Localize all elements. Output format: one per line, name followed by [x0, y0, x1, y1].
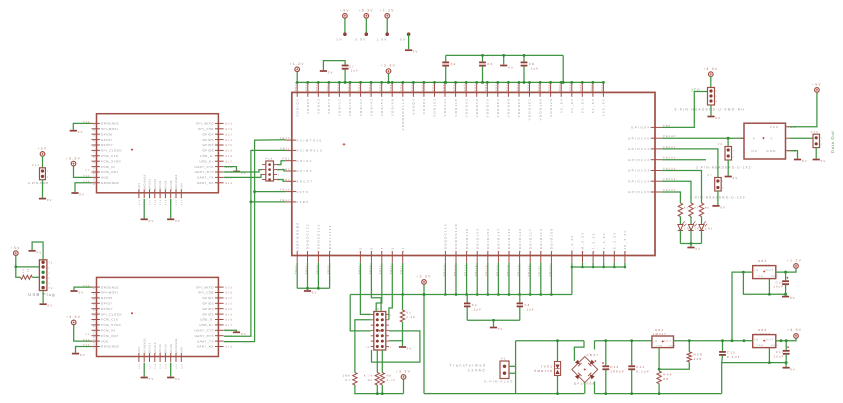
main IC top pin 27	[571, 83, 573, 97]
svg-text:GPIO3: GPIO3	[202, 307, 213, 311]
svg-text:GPIO1: GPIO1	[297, 159, 313, 163]
svg-text:VDDI56: VDDI56	[380, 98, 384, 116]
svg-text:S22: S22	[225, 133, 233, 136]
main IC top pin 7 name VDDI37	[359, 98, 363, 116]
wire U2 UART_RTS to P14	[224, 170, 262, 172]
svg-text:VDDIO153: VDDIO153	[475, 228, 479, 253]
text 2-PIN-PLUG	[484, 379, 513, 383]
ground 0V U2 UART_CTS	[233, 171, 240, 173]
module U2 bottom pin GROUND4	[175, 189, 177, 198]
svg-text:3M_3.3V: 3M_3.3V	[581, 231, 585, 252]
main IC top pin 19 name VDDD75	[486, 98, 490, 118]
svg-text:S4: S4	[92, 138, 95, 142]
junction top bus pin 27	[570, 81, 573, 84]
wire U3 GROUND1 to ground	[74, 287, 92, 290]
main IC top pin 21 name VDDD88	[507, 98, 511, 118]
svg-text:VDDD109: VDDD109	[538, 98, 542, 120]
main IC top pin 8	[370, 83, 372, 97]
main IC top pin 3	[317, 83, 319, 97]
svg-text:RESET: RESET	[101, 307, 113, 311]
svg-text:VDDIO152: VDDIO152	[486, 228, 490, 253]
svg-text:0V: 0V	[498, 327, 504, 331]
svg-text:+5V: +5V	[812, 83, 822, 87]
svg-text:.1uF: .1uF	[349, 69, 359, 73]
svg-text:GPIO134: GPIO134	[628, 179, 651, 183]
svg-text:USB_D+: USB_D+	[199, 323, 213, 327]
main IC left pin 12RX	[285, 201, 296, 203]
ground 0V U3 GROUND1	[70, 290, 77, 292]
wire GPIO84 to JTC header	[662, 92, 708, 128]
svg-text:0V: 0V	[78, 130, 84, 134]
svg-text:0V: 0V	[149, 219, 155, 223]
svg-text:VDDQ6: VDDQ6	[412, 98, 416, 115]
svg-text:+5V: +5V	[340, 9, 350, 13]
svg-text:S28: S28	[154, 199, 157, 205]
svg-text:TAB: TAB	[757, 275, 764, 278]
svg-text:S5: S5	[92, 144, 95, 148]
svg-text:VCC: VCC	[770, 125, 780, 129]
svg-text:CR37: CR37	[587, 353, 600, 357]
module U2 bottom pin AIO0	[180, 189, 182, 198]
svg-text:GPIO8: GPIO8	[170, 344, 173, 354]
wire P7 to ground	[717, 191, 719, 205]
svg-text:91: 91	[401, 247, 405, 253]
svg-text:+3.3V: +3.3V	[396, 370, 411, 374]
main IC right pin GPIO133	[651, 170, 662, 172]
wire LED CR1 cathode	[701, 231, 703, 244]
wire bridge bottom connection	[584, 383, 586, 394]
svg-text:Transformed: Transformed	[450, 364, 487, 368]
svg-text:0V: 0V	[821, 159, 827, 163]
wire R8 below JTAG	[381, 350, 383, 373]
net label top pin 6	[347, 82, 350, 91]
svg-text:IN: IN	[754, 338, 759, 341]
svg-text:0V: 0V	[720, 205, 726, 209]
module U2 bottom pin GPIO11	[149, 189, 151, 198]
svg-text:1: 1	[821, 137, 823, 140]
svg-text:GPIO140: GPIO140	[628, 136, 651, 140]
svg-text:GPIO141: GPIO141	[628, 147, 651, 151]
wire LED CR3 cathode	[679, 231, 681, 244]
ground 0V C2 C3	[493, 320, 495, 326]
capacitor C13	[605, 341, 607, 366]
svg-text:SPI_CSB: SPI_CSB	[198, 127, 214, 131]
svg-text:1: 1	[733, 149, 735, 152]
wire PB28 to JTAG col2	[371, 263, 381, 312]
text Data Out	[830, 131, 835, 153]
svg-text:0V: 0V	[80, 353, 86, 357]
svg-text:P14: P14	[265, 158, 273, 161]
svg-text:AIO0: AIO0	[180, 183, 183, 191]
main IC top pin 14 name VDD103	[433, 98, 437, 117]
svg-text:3.8V: 3.8V	[355, 37, 366, 41]
svg-text:GPIO3: GPIO3	[202, 143, 213, 147]
svg-text:GPIO10: GPIO10	[154, 178, 157, 190]
module U2 right pin UART_RTS	[215, 171, 224, 173]
op-amp IC2 buffer gate	[744, 123, 786, 159]
ground 0V flag top	[407, 32, 411, 36]
junction top bus pin 23	[528, 81, 531, 84]
ground 0V R1	[402, 341, 404, 347]
net label top pin 7	[358, 82, 361, 91]
main IC top pin 21	[507, 83, 509, 97]
wire PSU top rail right	[595, 340, 652, 342]
module U3 right pin UART_CTS	[215, 329, 224, 331]
main IC top pin 29	[592, 83, 594, 97]
module U3 bottom pin GPIO8	[170, 353, 172, 362]
module U3 left pin GROUND1	[92, 286, 100, 288]
net label top pin 5	[337, 82, 340, 91]
svg-text:C2: C2	[472, 303, 478, 307]
junction top bus pin 14	[433, 81, 436, 84]
main IC top pin 22 name VDDD95	[517, 98, 521, 118]
svg-text:GPIO2: GPIO2	[202, 149, 213, 153]
wire tap 12RX	[251, 201, 285, 203]
svg-text:+1.2V: +1.2V	[380, 9, 395, 13]
svg-text:D14: D14	[22, 269, 25, 276]
capacitor C15	[722, 341, 724, 351]
svg-text:0V: 0V	[695, 247, 701, 251]
svg-text:51_0V: 51_0V	[591, 98, 595, 113]
net label PB6	[663, 124, 671, 127]
svg-text:S18: S18	[225, 319, 233, 322]
regulator U01	[655, 328, 664, 332]
svg-text:VDD111: VDD111	[443, 98, 447, 117]
module U2 net labels left	[83, 121, 90, 124]
net label top pin 29	[590, 82, 593, 91]
svg-text:2: 2	[722, 187, 724, 190]
svg-text:VDDD82: VDDD82	[496, 98, 500, 118]
net label top pin 24	[538, 82, 541, 91]
main IC top pin 17 name VDDD62	[464, 98, 468, 118]
svg-text:0V: 0V	[790, 296, 796, 300]
net label top pin 12	[411, 82, 414, 91]
net label top pin 11	[400, 82, 403, 91]
svg-text:VDDPLL124: VDDPLL124	[328, 224, 332, 252]
ground 0V buffer	[794, 159, 801, 161]
svg-text:0.15: 0.15	[27, 268, 30, 276]
ground 0V U3 GROUND3	[141, 377, 148, 379]
svg-text:2: 2	[716, 95, 718, 98]
svg-text:5V: 5V	[337, 37, 343, 41]
net label top pin 3	[316, 82, 319, 91]
wire PB29 to JTAG col1	[376, 263, 382, 312]
svg-text:0V: 0V	[175, 219, 181, 223]
svg-text:14: 14	[388, 346, 392, 349]
svg-text:C13: C13	[610, 365, 619, 369]
capacitor C14	[631, 341, 633, 366]
svg-text:GROUND4: GROUND4	[175, 338, 178, 354]
svg-text:C6: C6	[487, 62, 493, 66]
wire +3.3V rail drop to bottom rail	[423, 295, 425, 394]
main IC top pin 22	[518, 83, 520, 97]
module U3 right pin UART_RX	[215, 346, 224, 348]
svg-text:S19: S19	[225, 313, 233, 316]
wire ground return rail	[722, 363, 786, 394]
svg-text:SPI_CSB: SPI_CSB	[198, 291, 214, 295]
module U2 right pin UART_RX	[215, 182, 224, 184]
svg-text:S9: S9	[92, 329, 95, 333]
ground 0V U2 GROUND3	[141, 218, 148, 220]
connector P15 2-PIN-PWR	[32, 164, 40, 167]
svg-text:VDDIO147: VDDIO147	[497, 228, 501, 253]
junction top bus pin 5	[338, 81, 341, 84]
module U3 left pin GPIO6	[92, 297, 100, 299]
module U3 bottom pin GPIO10	[154, 353, 156, 362]
svg-text:30: 30	[359, 247, 363, 253]
wire +5V to USB pin1	[16, 256, 40, 267]
svg-text:+1.2V: +1.2V	[290, 62, 305, 66]
svg-text:VDDOSCPLL2: VDDOSCPLL2	[401, 98, 405, 131]
net label PB1	[282, 158, 290, 161]
svg-text:+3.3V: +3.3V	[66, 156, 81, 160]
net label top pin 9	[379, 82, 382, 91]
svg-text:VDDI37: VDDI37	[359, 98, 363, 116]
svg-text:GPIO8: GPIO8	[170, 180, 173, 190]
module U2 left pin VDD	[92, 176, 100, 178]
net label PB3	[282, 178, 290, 181]
svg-text:Y: Y	[771, 136, 774, 140]
wire U3 GROUND2 to ground	[76, 347, 92, 353]
svg-text:0V: 0V	[37, 250, 43, 254]
svg-text:TAB: TAB	[757, 344, 764, 347]
svg-text:OUT: OUT	[766, 338, 774, 341]
svg-text:PCM_OUT: PCM_OUT	[101, 170, 119, 174]
junction top bus pin 20	[496, 81, 499, 84]
junction top bus pin 16	[454, 81, 457, 84]
capacitor C7	[342, 66, 349, 69]
main IC top pin 10 name VDDI68	[390, 98, 394, 116]
wire buffer VCC to +5V	[789, 92, 817, 127]
svg-text:R6: R6	[705, 207, 710, 210]
svg-text:13: 13	[366, 346, 370, 349]
wire U3 VDD to +3.3V	[74, 325, 92, 341]
resistor R6	[699, 203, 703, 217]
svg-text:CR1: CR1	[705, 228, 713, 231]
svg-text:VDD: VDD	[101, 339, 109, 343]
svg-text:VDDI68: VDDI68	[390, 98, 394, 116]
svg-text:S4: S4	[92, 302, 95, 306]
svg-text:70: 70	[370, 247, 374, 253]
resistor R8	[380, 373, 384, 386]
junction top bus pin 22	[518, 81, 521, 84]
svg-text:S13: S13	[225, 346, 233, 349]
module U3 right pin UART_RTS	[215, 335, 224, 337]
svg-text:+5V: +5V	[38, 147, 48, 151]
net label top pin 19	[485, 82, 488, 91]
supply +3.3V JTC	[709, 72, 714, 77]
module U2 left pin PCM_CLK	[92, 155, 100, 157]
wire GPIO to LED column CR2	[662, 181, 691, 203]
net label top pin 10	[390, 82, 393, 91]
svg-text:GPIO11: GPIO11	[149, 179, 152, 191]
svg-text:S3: S3	[92, 133, 95, 137]
svg-text:0V: 0V	[47, 198, 53, 202]
net label top pin 17	[464, 82, 467, 91]
module U3 left pin GROUND2	[92, 346, 100, 348]
net label PB133	[663, 168, 676, 171]
svg-text:VDDD75: VDDD75	[486, 98, 490, 118]
wire 3.3V rail to JTAG row4	[350, 295, 371, 331]
junction top bus pin 15	[444, 81, 447, 84]
main IC top pin 30	[602, 83, 604, 97]
LED CR3	[678, 217, 686, 231]
svg-text:VDDOSC128: VDDOSC128	[454, 223, 458, 252]
module U2 left pin GROUND2	[92, 182, 100, 184]
svg-text:2.2K: 2.2K	[406, 316, 416, 319]
svg-text:IN: IN	[754, 269, 759, 272]
svg-text:2: 2	[47, 176, 49, 179]
svg-text:UART_RX: UART_RX	[197, 345, 214, 349]
module U3 left pin PCM_SYNC	[92, 324, 100, 326]
capacitor C3	[519, 295, 521, 303]
svg-text:+3.3V: +3.3V	[359, 9, 374, 13]
svg-text:GPIO11: GPIO11	[149, 342, 152, 354]
op-amp U1 main processor IC body	[292, 92, 655, 255]
svg-text:GPIO142: GPIO142	[628, 158, 651, 162]
svg-text:S8: S8	[92, 323, 95, 327]
junction top bus pin 26	[560, 81, 563, 84]
wire R6 below JTAG	[376, 350, 378, 373]
module U2 left pin GPIO7	[92, 139, 100, 141]
svg-text:VDD: VDD	[101, 176, 109, 180]
svg-text:SPI_CLOCK: SPI_CLOCK	[101, 149, 122, 153]
module U3 left pin PCM_CLK	[92, 319, 100, 321]
svg-text:PCM_IN: PCM_IN	[101, 165, 115, 169]
svg-text:SPI_MISO: SPI_MISO	[196, 285, 214, 289]
module U2 right pin USB_D+	[215, 160, 224, 162]
svg-text:GPIO4: GPIO4	[202, 296, 213, 300]
wire caps C2 C3 join	[467, 319, 520, 321]
module U2 right pin SPI_MISO	[215, 122, 224, 124]
module U3 net labels left	[83, 284, 90, 287]
svg-text:SPI_CLOCK: SPI_CLOCK	[101, 312, 122, 316]
svg-text:RE_3.3V: RE_3.3V	[613, 231, 617, 252]
module U3 right pin GPIO4	[215, 297, 224, 299]
net label top pin 14	[432, 82, 435, 91]
svg-text:1.8V: 1.8V	[376, 37, 387, 41]
svg-text:0V: 0V	[733, 176, 739, 180]
svg-text:UART_RX: UART_RX	[197, 181, 214, 185]
ground 0V P7	[712, 205, 719, 207]
main IC top pin 4	[328, 83, 330, 97]
svg-text:UART_CTS: UART_CTS	[195, 165, 214, 169]
svg-text:P10: P10	[811, 131, 819, 134]
wire cluster4 subrail	[571, 263, 573, 267]
main IC top pin 4 name VDD76	[327, 98, 331, 114]
ground 0V JTC	[707, 116, 714, 118]
net label top pin 28	[580, 82, 583, 91]
module U2 left pin PCM_IN	[92, 166, 100, 168]
ground 0V U2 GROUND2	[71, 192, 78, 194]
svg-text:USB_D-: USB_D-	[200, 154, 214, 158]
module U3 right pin USB_D+	[215, 324, 224, 326]
svg-text:T2: T2	[48, 287, 53, 290]
svg-text:37_3.3V: 37_3.3V	[591, 232, 595, 252]
svg-text:C16: C16	[776, 281, 784, 284]
module U2 right pin USB_D-	[215, 155, 224, 157]
svg-text:OUT: OUT	[766, 269, 774, 272]
svg-text:C8: C8	[529, 62, 535, 66]
svg-text:10uF: 10uF	[774, 355, 785, 358]
svg-text:RESET: RESET	[101, 143, 113, 147]
ground 0V USB bottom	[40, 303, 47, 305]
svg-text:33_0V: 33_0V	[570, 98, 574, 113]
svg-text:S8: S8	[92, 160, 95, 164]
svg-text:S22: S22	[225, 297, 233, 300]
svg-text:P15: P15	[32, 164, 40, 167]
net label PB135	[663, 189, 676, 192]
wire P14 pin4 to ADC57	[277, 180, 285, 182]
svg-text:S2: S2	[92, 291, 95, 295]
svg-text:PCM_SYNC: PCM_SYNC	[101, 323, 122, 327]
supply +1.2V over bus pin1	[296, 72, 298, 83]
ground 0V P8	[725, 176, 732, 178]
wire U2 bottom GROUND4	[170, 199, 172, 219]
module U3 left pin SPI_CLOCK	[92, 313, 100, 315]
svg-text:2: 2	[390, 314, 392, 317]
resistor R14 series USB	[16, 267, 21, 277]
wire LED CR2 cathode	[690, 231, 692, 244]
ground 0V USB shield	[29, 250, 36, 252]
main IC top pin 24 name VDDD109	[538, 98, 542, 120]
wire GPIO140 to buffer A input	[662, 137, 744, 139]
svg-text:S19: S19	[225, 150, 233, 153]
wire bridge top connection	[574, 341, 584, 361]
junction top bus pin 29	[592, 81, 595, 84]
svg-text:VDD103: VDD103	[433, 98, 437, 117]
svg-text:GND: GND	[771, 275, 779, 278]
wire P8 to ground	[727, 160, 729, 176]
wire +3.3V top bus	[297, 81, 603, 83]
svg-text:VDDD68: VDDD68	[475, 98, 479, 118]
main IC top pin 3 name VDD63	[317, 98, 321, 114]
module U3 bottom pin GPIO11	[149, 353, 151, 362]
svg-text:S23: S23	[225, 128, 233, 131]
supply +3.3V pullups	[403, 379, 405, 393]
wire 2-PIN-PWR to ground	[42, 180, 44, 198]
svg-text:S24: S24	[225, 286, 233, 289]
junction top bus pin 1	[296, 81, 299, 84]
junction top bus pin 7	[359, 81, 362, 84]
main IC left pin SCIMRX10	[285, 149, 296, 151]
svg-text:VDDIO6: VDDIO6	[295, 98, 299, 117]
main IC bottom pins cluster4	[571, 251, 573, 263]
svg-text:S1: S1	[92, 286, 95, 290]
ground 0V U3 UART_CTS	[233, 331, 240, 333]
junction top bus pin 11	[401, 81, 404, 84]
svg-text:+3.3V: +3.3V	[66, 315, 81, 319]
connector P14 header	[265, 158, 273, 161]
wire P14 pin2 to GPIO2	[277, 170, 285, 171]
svg-text:VDDIO136: VDDIO136	[507, 228, 511, 253]
svg-text:+1.2V: +1.2V	[787, 258, 802, 262]
main IC origin mark	[343, 143, 346, 146]
main IC right pin GPIO141	[651, 148, 662, 150]
main IC top pin 29 name 51_0V	[591, 98, 595, 113]
wire U2 GROUND1 to ground	[73, 123, 91, 129]
module U3 bottom pin GPIO0	[164, 353, 166, 362]
wire PB11 SCIMRX10 loop to 12RX and U3	[224, 150, 285, 336]
svg-text:S6: S6	[92, 149, 95, 153]
main IC top pin 2 name VDD05	[306, 98, 310, 114]
svg-text:P1: P1	[501, 357, 506, 360]
module U2 left pin RESET	[92, 144, 100, 146]
svg-text:1M0: 1M0	[343, 375, 351, 378]
net label top pin 4	[326, 82, 329, 91]
svg-text:P2: P2	[85, 333, 90, 336]
svg-text:0.1uF: 0.1uF	[727, 355, 741, 359]
